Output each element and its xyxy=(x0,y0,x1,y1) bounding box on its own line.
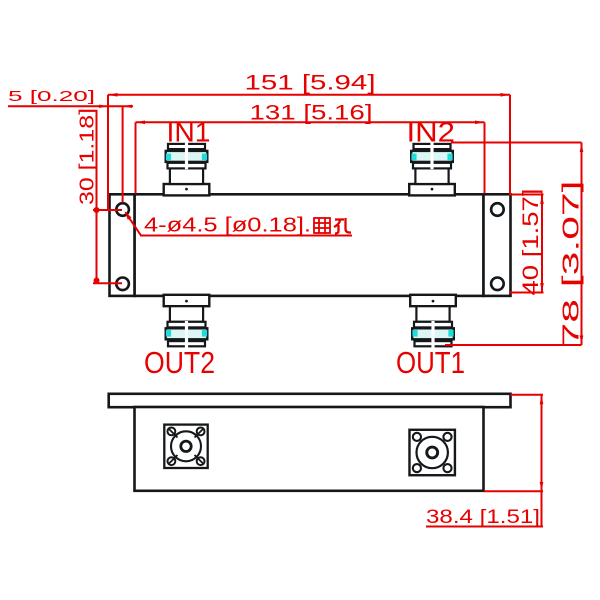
corner chamfer marks left connector xyxy=(168,428,204,465)
arrow 131 right xyxy=(475,121,485,125)
connector IN1 xyxy=(164,142,210,195)
arrow 151 left xyxy=(108,93,118,97)
underline 38.4 xyxy=(426,526,543,528)
body edge-on xyxy=(135,407,484,491)
connector IN2 xyxy=(409,142,455,195)
arrow 5 right xyxy=(123,105,132,108)
dim 78 tie top xyxy=(451,142,582,144)
svg-text:IN2: IN2 xyxy=(407,117,456,148)
arrow 151 right xyxy=(501,93,511,97)
mounting plate edge-on xyxy=(109,394,511,407)
extension line 131 right xyxy=(484,122,486,193)
dim 38.4 line xyxy=(541,395,543,527)
dim 30 tie top xyxy=(93,209,122,211)
dim line 5 xyxy=(8,105,133,107)
dim 30 dot bottom xyxy=(94,278,100,284)
extension line 131 left xyxy=(135,122,137,193)
flange connector left xyxy=(164,425,207,468)
dim 30 dot top xyxy=(94,207,100,213)
svg-text:4-ø4.5 [ø0.18].: 4-ø4.5 [ø0.18]. xyxy=(144,215,311,237)
underline 4-holes note xyxy=(140,235,352,237)
dim 30 tie bottom xyxy=(93,282,122,284)
arrow 78 top xyxy=(580,143,584,153)
flange connector right xyxy=(409,430,454,475)
CJK glyph 1 (drawn) xyxy=(314,218,330,233)
right mounting flange xyxy=(484,194,511,296)
dim 40 tie bottom xyxy=(509,292,544,294)
arrow 40 top xyxy=(540,195,544,205)
mounting hole top-right xyxy=(491,203,504,216)
svg-text:78 [3.07]: 78 [3.07] xyxy=(558,181,584,347)
svg-text:OUT1: OUT1 xyxy=(396,346,465,380)
arrow 131 left xyxy=(136,121,146,125)
arrow 40 bottom xyxy=(540,283,544,293)
leader 4-holes xyxy=(126,213,142,236)
connector OUT1 xyxy=(410,295,456,348)
CJK glyph 2 (drawn) xyxy=(334,218,351,234)
extension line B (hole center) xyxy=(122,106,124,202)
dim 38.4 top tie xyxy=(511,394,544,396)
dim 78 line xyxy=(581,143,583,346)
arrow 78 bottom xyxy=(580,336,584,346)
svg-text:151 [5.94]: 151 [5.94] xyxy=(245,71,376,95)
dim 78 tie bottom xyxy=(445,344,582,346)
svg-text:38.4 [1.51]: 38.4 [1.51] xyxy=(426,507,540,528)
svg-text:131 [5.16]: 131 [5.16] xyxy=(250,101,373,125)
main body xyxy=(135,194,484,296)
mounting hole bottom-left xyxy=(116,278,129,291)
mounting hole top-left xyxy=(116,203,129,216)
mounting hole bottom-right xyxy=(491,278,504,291)
svg-text:30 [1.18]: 30 [1.18] xyxy=(77,108,99,205)
extension line 151 right xyxy=(509,95,511,194)
extension line A xyxy=(107,95,109,211)
dim 30 vertical line xyxy=(96,110,98,284)
svg-text:40 [1.57]: 40 [1.57] xyxy=(518,189,543,296)
svg-text:5 [0.20]: 5 [0.20] xyxy=(8,88,95,105)
connector OUT2 xyxy=(164,295,210,348)
dim line 151 xyxy=(108,94,510,96)
arrow 5 left xyxy=(99,105,108,108)
dim 40 line xyxy=(541,195,543,293)
svg-text:OUT2: OUT2 xyxy=(144,346,215,380)
dim line 131 xyxy=(136,121,485,123)
arrow 38.4 bottom xyxy=(540,482,544,492)
left mounting flange xyxy=(110,194,135,296)
svg-text:IN1: IN1 xyxy=(167,117,211,148)
dim 38.4 bottom tie xyxy=(484,490,543,492)
dim 40 tie top xyxy=(509,194,544,196)
arrow 38.4 top xyxy=(540,395,544,405)
